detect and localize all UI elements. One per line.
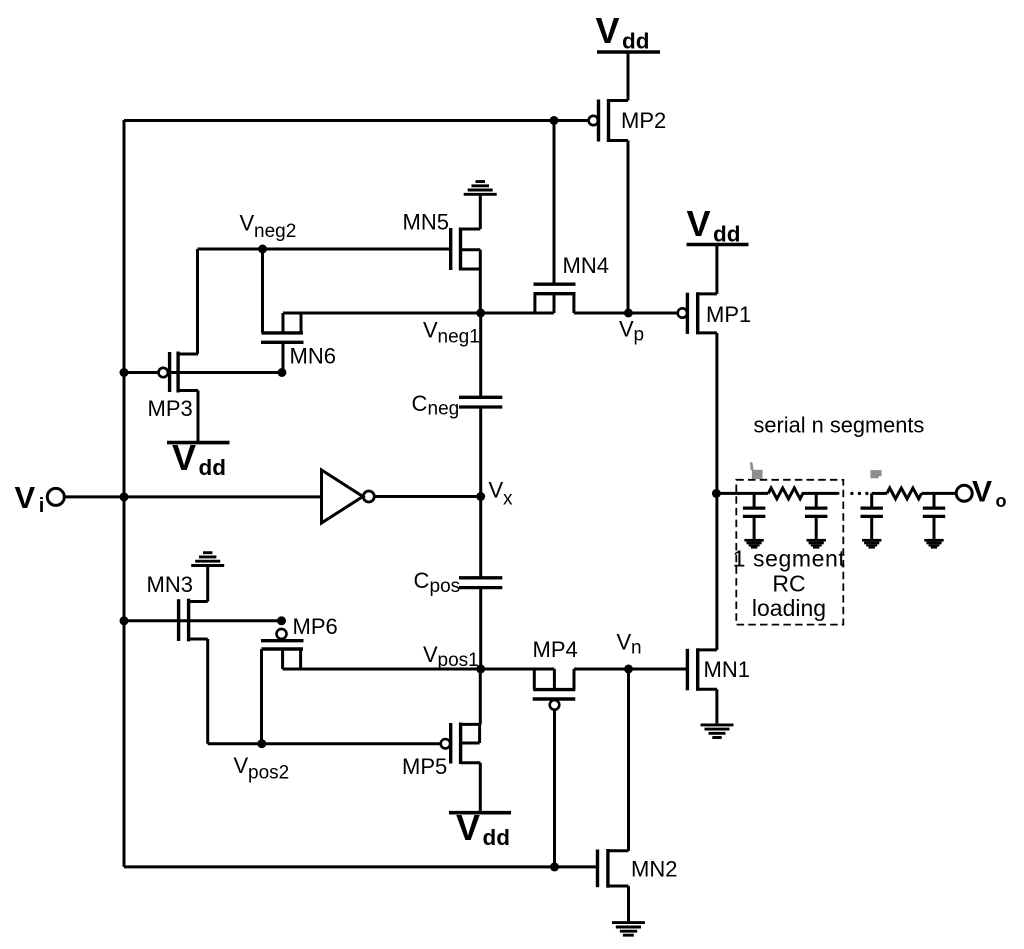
capacitor C2: [805, 493, 827, 539]
wire Vneg1 to Cneg: [479, 313, 482, 397]
svg-text:pos1: pos1: [438, 650, 479, 671]
svg-text:V: V: [456, 807, 480, 848]
node output junction: [712, 489, 721, 498]
wire output to resistor R1: [716, 492, 768, 495]
svg-text:V: V: [619, 317, 634, 342]
resistor R1: [768, 488, 803, 499]
label MN4: [563, 253, 609, 278]
svg-text:neg: neg: [428, 399, 460, 420]
svg-text:C: C: [412, 391, 428, 416]
svg-text:neg1: neg1: [438, 327, 480, 348]
svg-text:MN4: MN4: [563, 253, 609, 278]
transistor MN3: [179, 599, 208, 642]
label MP1: [706, 302, 751, 327]
transistor MP3: [159, 352, 199, 393]
grey artifact mark right: [870, 470, 881, 478]
svg-text:RC: RC: [772, 571, 805, 597]
label node Vx: [489, 478, 514, 510]
label MP3: [148, 396, 193, 421]
label node Vp: [619, 317, 644, 346]
svg-text:MP5: MP5: [402, 754, 447, 779]
node Vneg1 junction: [476, 309, 485, 318]
wire bottom row rail to MN2 gate: [124, 865, 598, 868]
terminal Vo circle: [956, 485, 972, 501]
ground below MN1: [701, 725, 734, 738]
wire MN3 MP6 gate row: [124, 619, 282, 622]
wire node Vpos1 row: [283, 668, 555, 671]
node junction top MN4-gate tap: [550, 116, 559, 125]
capacitor Cneg: [459, 397, 502, 407]
ground below MN2: [612, 923, 645, 936]
svg-text:V: V: [972, 476, 992, 509]
wire Vneg2 drop to MP3 drain: [196, 249, 199, 354]
svg-text:n: n: [631, 638, 642, 659]
transistor MN4: [534, 284, 576, 313]
node junction MP6 gate: [277, 616, 286, 625]
label node Vpos2: [234, 753, 290, 784]
wire Vn down to MN2 drain: [627, 669, 630, 851]
label node Vneg2: [240, 211, 297, 243]
power Vdd bar below MP3: [167, 441, 230, 445]
wire MP1 source to Vdd: [715, 245, 718, 294]
node Vneg2 junction: [258, 245, 267, 254]
wire MN5 drain up to ground: [479, 195, 482, 229]
node Vpos1 junction: [476, 665, 485, 674]
svg-text:MN3: MN3: [147, 572, 193, 597]
label node Vn: [617, 630, 642, 659]
capacitor C1: [743, 493, 765, 539]
svg-text:MN6: MN6: [290, 344, 336, 369]
svg-text:MN5: MN5: [403, 210, 449, 235]
transistor MP1: [678, 292, 717, 334]
wire node Vp row: [574, 312, 678, 315]
label Vo: [972, 476, 1007, 512]
wire MP2 source to Vdd: [627, 52, 630, 101]
label MN3: [147, 572, 193, 597]
node junction rail gate row: [120, 368, 129, 377]
wire left feedback rail: [123, 120, 126, 867]
wire node Vpos2 row: [208, 742, 441, 745]
node Vp junction: [624, 309, 633, 318]
ground arrow C1: [744, 539, 763, 549]
transistor MN6: [261, 249, 304, 373]
wire node Vneg2 row: [198, 248, 451, 251]
svg-text:V: V: [596, 10, 620, 51]
svg-text:V: V: [687, 203, 711, 244]
wire Cneg to Vx to Cpos: [479, 407, 482, 578]
svg-text:C: C: [414, 568, 430, 593]
svg-text:MN1: MN1: [704, 657, 750, 682]
wire MP3 MN6 gate row: [124, 371, 282, 374]
wire MN1 source to ground: [715, 689, 718, 723]
wire inverter out to Vx: [375, 495, 481, 498]
label Vdd top: [596, 10, 650, 54]
wire top from rail to MP2 gate: [124, 119, 589, 122]
wire MN5 source tie down to Vneg1: [479, 250, 482, 313]
power Vdd bar for MP1: [687, 243, 749, 247]
transistor MN2: [598, 849, 629, 888]
op-amp inverter U1: [322, 470, 375, 523]
svg-text:pos: pos: [430, 576, 461, 597]
wire MP1 drain down to output node: [715, 333, 718, 494]
wire MP5 drain up to Vpos1: [479, 669, 482, 724]
svg-text:1 segment: 1 segment: [733, 546, 846, 572]
grey artifact mark left: [750, 462, 763, 479]
wire node Vneg1 row: [283, 312, 554, 315]
capacitor C3: [861, 493, 883, 539]
label MP5: [402, 754, 447, 779]
wire MP3 source down to Vdd: [197, 391, 200, 443]
wire R2 to Vo: [922, 492, 957, 495]
label Cneg: [412, 391, 460, 420]
label MN5: [403, 210, 449, 235]
ground up-facing above MN5: [464, 182, 497, 195]
svg-text:dd: dd: [713, 222, 741, 247]
svg-text:dd: dd: [622, 29, 650, 54]
label MP6: [293, 614, 338, 639]
label node Vneg1: [423, 318, 480, 348]
capacitor C4: [923, 493, 945, 539]
transistor MN5: [451, 228, 481, 271]
label node Vpos1: [423, 642, 479, 671]
wire Cpos to Vpos1: [479, 588, 482, 669]
wire segment2 in: [872, 492, 887, 495]
ground arrow C4: [924, 539, 943, 549]
wire node Vn row: [574, 668, 687, 671]
power Vdd bar below MP5: [449, 811, 511, 815]
transistor MP6: [261, 629, 304, 744]
wire Vi to inverter: [64, 495, 321, 498]
svg-text:MP1: MP1: [706, 302, 751, 327]
label MN1: [704, 657, 750, 682]
svg-text:dd: dd: [199, 455, 227, 480]
svg-text:V: V: [617, 630, 632, 655]
wire MN1 drain up to output node: [715, 493, 718, 650]
svg-text:MP3: MP3: [148, 396, 193, 421]
ground arrow C3: [862, 539, 881, 549]
wire MN2 source to ground: [627, 886, 630, 921]
svg-text:serial n segments: serial n segments: [754, 413, 925, 438]
resistor R2: [887, 488, 922, 499]
wire MN4 gate drop: [553, 121, 556, 285]
svg-text:p: p: [634, 325, 645, 346]
label MP2: [621, 108, 666, 133]
svg-text:V: V: [423, 318, 438, 343]
node junction Vi rail: [120, 492, 129, 501]
svg-text:V: V: [240, 211, 255, 236]
label Vdd below MP3: [172, 437, 226, 480]
node Vpos2 junction: [257, 739, 266, 748]
svg-text:V: V: [423, 642, 438, 667]
power Vdd top bar: [597, 50, 660, 54]
label serial n segments: [754, 413, 925, 438]
node Vn junction: [624, 665, 633, 674]
svg-text:V: V: [15, 480, 36, 515]
wire MP5 source down to Vdd: [479, 763, 482, 813]
transistor MP5: [441, 723, 481, 765]
svg-text:MP2: MP2: [621, 108, 666, 133]
capacitor Cpos: [459, 578, 502, 588]
transistor MP2: [589, 99, 628, 142]
svg-text:V: V: [489, 478, 504, 503]
svg-text:MP6: MP6: [293, 614, 338, 639]
node junction MP4 gate bottom: [550, 862, 559, 871]
wire MN3 source down to Vpos2: [206, 639, 209, 744]
svg-text:loading: loading: [752, 595, 826, 621]
node Vx junction: [476, 492, 485, 501]
svg-text:V: V: [234, 753, 249, 778]
terminal Vi circle: [47, 488, 64, 505]
svg-text:MN2: MN2: [631, 857, 677, 882]
svg-text:pos2: pos2: [248, 763, 289, 784]
svg-text:MP4: MP4: [533, 637, 578, 662]
label MN6: [290, 344, 336, 369]
svg-text:i: i: [39, 495, 45, 517]
svg-text:o: o: [996, 491, 1007, 511]
box dashed 1 segment RC loading: [736, 480, 843, 625]
wire after R1: [803, 492, 838, 495]
svg-text:V: V: [172, 437, 196, 478]
svg-text:neg2: neg2: [254, 221, 296, 242]
label MP4: [533, 637, 578, 662]
wire MP2 drain down to Vp: [627, 141, 630, 314]
label Vi: [15, 480, 45, 517]
transistor MP4: [533, 669, 576, 710]
label MN2: [631, 857, 677, 882]
wire MP4 gate drop to bottom row: [553, 710, 556, 867]
transistor MN1: [687, 648, 717, 691]
ground arrow C2: [807, 539, 826, 549]
node junction rail lower gate row: [120, 616, 129, 625]
node junction MN6 gate: [277, 368, 286, 377]
wire dotted continuation: [850, 492, 868, 495]
ground up-facing above MN3: [191, 553, 224, 566]
svg-text:dd: dd: [483, 825, 511, 850]
label Vdd below MP5: [456, 807, 510, 850]
label Cpos: [414, 568, 461, 597]
label Vdd MP1: [687, 203, 741, 247]
svg-text:x: x: [503, 489, 513, 510]
label 1 segment RC loading: [733, 546, 846, 622]
wire MN3 drain up to ground: [206, 567, 209, 602]
